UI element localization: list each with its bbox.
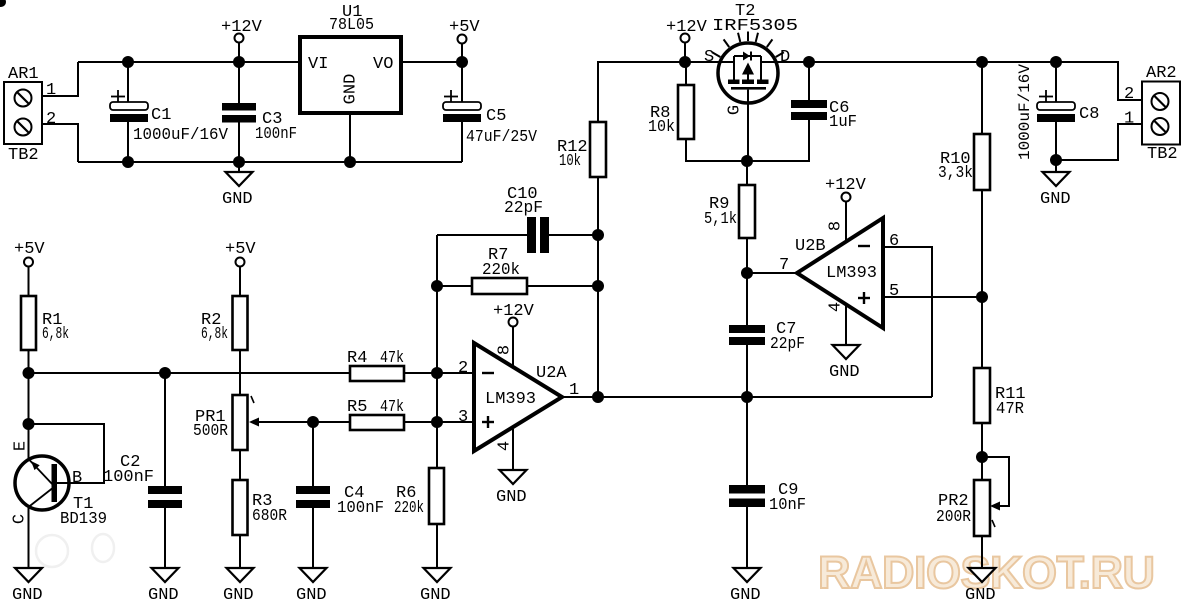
ground U2B pin 4 bbox=[829, 345, 860, 382]
op-amp U2A LM393 bbox=[474, 302, 567, 470]
ground under PR2 bbox=[965, 568, 996, 603]
wire feedback column bbox=[436, 235, 438, 468]
capacitor C10 bbox=[437, 185, 598, 253]
junction +12V / R8 bbox=[679, 56, 691, 68]
svg-text:100nF: 100nF bbox=[103, 468, 154, 487]
ground under C3 bbox=[222, 162, 253, 209]
junction pin2 node bbox=[431, 367, 443, 379]
svg-text:+5V: +5V bbox=[14, 240, 45, 259]
svg-text:47uF/25V: 47uF/25V bbox=[466, 128, 538, 147]
svg-text:S: S bbox=[704, 48, 714, 67]
svg-text:C5: C5 bbox=[486, 107, 506, 126]
wire U2B pin 7 bbox=[747, 272, 797, 274]
wire AR1 pin1 to +12V rail bbox=[42, 62, 78, 96]
resistor R3 bbox=[233, 450, 288, 568]
potentiometer PR2 bbox=[936, 423, 1009, 568]
capacitor C9 bbox=[729, 397, 806, 568]
wire inverting net y=422 bbox=[313, 421, 474, 423]
wire R12 column down bbox=[597, 177, 599, 397]
svg-text:GND: GND bbox=[12, 586, 43, 603]
svg-text:220k: 220k bbox=[482, 261, 520, 280]
junction R1 bottom bbox=[23, 367, 35, 379]
ground U2A pin 4 bbox=[496, 470, 527, 507]
svg-text:3: 3 bbox=[458, 408, 468, 427]
ground under C8 bbox=[1040, 160, 1071, 209]
regulator U1 78L05 bbox=[300, 3, 401, 162]
ground under C9 bbox=[730, 568, 761, 603]
svg-text:GND: GND bbox=[342, 74, 361, 105]
svg-text:VI: VI bbox=[308, 55, 328, 74]
junction pin3 node bbox=[431, 416, 443, 428]
svg-text:GND: GND bbox=[296, 586, 327, 603]
svg-text:LM393: LM393 bbox=[826, 264, 877, 283]
junction T2 gate node bbox=[741, 155, 753, 167]
svg-text:+5V: +5V bbox=[449, 18, 480, 37]
svg-text:U2A: U2A bbox=[536, 364, 567, 383]
svg-text:2: 2 bbox=[46, 110, 56, 129]
resistor R11 bbox=[974, 368, 1026, 423]
junction C8 bottom bbox=[1050, 154, 1062, 166]
junction C8 top bbox=[1050, 56, 1062, 68]
svg-text:4: 4 bbox=[827, 302, 846, 312]
capacitor C8 bbox=[1016, 62, 1099, 160]
svg-text:6,8k: 6,8k bbox=[201, 325, 228, 344]
ground under T1 bbox=[12, 568, 43, 603]
svg-text:1uF: 1uF bbox=[829, 113, 857, 132]
svg-text:VO: VO bbox=[373, 55, 393, 74]
svg-text:78L05: 78L05 bbox=[329, 16, 374, 35]
wire +12V rail right bbox=[598, 62, 719, 122]
transistor T2 IRF5305 bbox=[704, 2, 798, 161]
ground under C2 bbox=[148, 568, 179, 603]
svg-text:1000uF/16V: 1000uF/16V bbox=[133, 126, 229, 145]
svg-text:1: 1 bbox=[1124, 110, 1134, 129]
wire U2B pin 5 bbox=[883, 296, 982, 298]
svg-text:C1: C1 bbox=[151, 106, 171, 125]
power +12V at T2 source bbox=[666, 18, 708, 62]
wire non-inverting net y=373 bbox=[29, 372, 475, 374]
svg-text:1000uF/16V: 1000uF/16V bbox=[1016, 64, 1034, 160]
svg-text:GND: GND bbox=[1040, 190, 1071, 209]
junction C10 right bbox=[592, 229, 604, 241]
junction output/C9 bbox=[741, 391, 753, 403]
wire +12V rail to AR2 pin 2 bbox=[776, 62, 1142, 100]
svg-text:BD139: BD139 bbox=[60, 510, 107, 529]
power +5V at C5 bbox=[449, 18, 480, 62]
svg-text:5: 5 bbox=[889, 282, 899, 301]
wire GND bottom rail left bbox=[78, 161, 462, 163]
junction C3 bottom bbox=[233, 156, 245, 168]
junction C6 top bbox=[803, 56, 815, 68]
svg-text:22pF: 22pF bbox=[770, 335, 805, 354]
svg-text:5,1k: 5,1k bbox=[704, 210, 737, 229]
junction R10 top bbox=[976, 56, 988, 68]
junction R11/PR2 wiper bbox=[976, 451, 988, 463]
svg-text:6,8k: 6,8k bbox=[42, 325, 69, 344]
svg-text:GND: GND bbox=[965, 586, 996, 603]
svg-text:100nF: 100nF bbox=[337, 499, 384, 518]
svg-text:10nF: 10nF bbox=[769, 496, 806, 515]
capacitor C3 bbox=[222, 62, 297, 162]
svg-text:TB2: TB2 bbox=[1147, 145, 1178, 164]
potentiometer PR1 bbox=[193, 395, 313, 450]
svg-text:AR2: AR2 bbox=[1146, 64, 1177, 83]
svg-text:10k: 10k bbox=[648, 118, 675, 137]
svg-text:GND: GND bbox=[496, 488, 527, 507]
svg-text:6: 6 bbox=[889, 232, 899, 251]
op-amp U2B LM393 bbox=[795, 176, 883, 345]
junction pin5 / R10-R11 bbox=[976, 291, 988, 303]
resistor R7 bbox=[437, 246, 598, 294]
watermark ghost logo bottom-left bbox=[36, 534, 114, 567]
capacitor C5 bbox=[443, 62, 538, 162]
resistor R10 bbox=[938, 62, 990, 368]
svg-text:8: 8 bbox=[827, 221, 846, 231]
ground under C4 bbox=[296, 568, 327, 603]
svg-text:2: 2 bbox=[458, 359, 468, 378]
svg-text:C: C bbox=[11, 514, 30, 524]
svg-text:100nF: 100nF bbox=[255, 125, 297, 144]
capacitor C1 bbox=[110, 62, 229, 162]
svg-text:D: D bbox=[780, 48, 790, 67]
svg-text:1: 1 bbox=[46, 81, 56, 100]
connector AR2 bbox=[1142, 64, 1180, 164]
svg-text:22pF: 22pF bbox=[504, 199, 543, 218]
transistor T1 BD139 bbox=[11, 424, 108, 568]
svg-text:47k: 47k bbox=[380, 349, 404, 368]
svg-text:500R: 500R bbox=[193, 422, 228, 441]
svg-text:3,3k: 3,3k bbox=[938, 164, 973, 183]
svg-text:GND: GND bbox=[420, 586, 451, 603]
wire U1 VO to C5 bbox=[401, 61, 462, 63]
svg-text:+5V: +5V bbox=[225, 240, 256, 259]
wire C8 to AR2 pin 1 bbox=[1056, 124, 1142, 160]
capacitor C7 bbox=[729, 273, 805, 397]
resistor R1 bbox=[21, 267, 69, 425]
power +5V at R1 bbox=[14, 240, 45, 267]
svg-text:GND: GND bbox=[730, 586, 761, 603]
resistor R6 bbox=[394, 468, 444, 568]
svg-text:R5: R5 bbox=[347, 398, 367, 417]
svg-text:GND: GND bbox=[222, 190, 253, 209]
junction C1 bottom bbox=[122, 156, 134, 168]
wire U2B pin 6 bbox=[883, 247, 932, 397]
svg-text:G: G bbox=[726, 105, 745, 115]
svg-text:AR1: AR1 bbox=[8, 65, 39, 84]
svg-text:E: E bbox=[12, 441, 31, 451]
svg-text:10k: 10k bbox=[559, 152, 581, 171]
resistor R4 bbox=[347, 349, 404, 381]
resistor R2 bbox=[201, 267, 248, 396]
svg-text:B: B bbox=[72, 469, 82, 488]
power +5V at R2 bbox=[225, 240, 256, 267]
svg-text:GND: GND bbox=[223, 586, 254, 603]
svg-text:GND: GND bbox=[148, 586, 179, 603]
junction VO node bbox=[456, 56, 468, 68]
svg-text:680R: 680R bbox=[252, 507, 287, 526]
svg-text:C8: C8 bbox=[1079, 105, 1099, 124]
power +12V at C3 bbox=[221, 18, 263, 62]
svg-text:200R: 200R bbox=[936, 508, 971, 527]
junction pin7 node bbox=[741, 267, 753, 279]
junction C3 top bbox=[233, 56, 245, 68]
junction C4 top bbox=[307, 416, 319, 428]
svg-text:GND: GND bbox=[829, 363, 860, 382]
svg-text:47k: 47k bbox=[380, 398, 404, 417]
junction T1 node bbox=[23, 418, 35, 430]
resistor R8 bbox=[648, 62, 747, 161]
svg-text:2: 2 bbox=[1124, 85, 1134, 104]
svg-text:IRF5305: IRF5305 bbox=[712, 17, 798, 36]
svg-text:220k: 220k bbox=[394, 499, 424, 518]
resistor R9 bbox=[704, 161, 755, 273]
svg-text:4: 4 bbox=[496, 441, 515, 451]
resistor R12 bbox=[557, 122, 606, 235]
junction U1 GND bbox=[344, 156, 356, 168]
wire U2A output net bbox=[562, 396, 932, 398]
capacitor C6 bbox=[747, 62, 857, 161]
svg-text:8: 8 bbox=[496, 345, 515, 355]
junction R7 right bbox=[592, 280, 604, 292]
resistor R5 bbox=[347, 398, 404, 430]
ground under R3 bbox=[223, 568, 254, 603]
svg-text:R4: R4 bbox=[347, 349, 367, 368]
wire +12V top rail left bbox=[78, 61, 300, 63]
svg-text:TB2: TB2 bbox=[8, 146, 39, 165]
junction output/R12 bbox=[592, 391, 604, 403]
capacitor C2 bbox=[103, 373, 182, 568]
corner mark bbox=[0, 0, 6, 7]
capacitor C4 bbox=[296, 422, 384, 568]
connector AR1 bbox=[4, 65, 42, 165]
junction R7 left bbox=[431, 280, 443, 292]
svg-text:LM393: LM393 bbox=[485, 390, 536, 409]
svg-text:47R: 47R bbox=[996, 400, 1024, 419]
junction C2 top bbox=[159, 367, 171, 379]
svg-text:U2B: U2B bbox=[795, 237, 826, 256]
wire AR1 pin2 to GND rail bbox=[42, 124, 78, 162]
junction C1 top bbox=[122, 56, 134, 68]
ground under R6 bbox=[420, 568, 451, 603]
